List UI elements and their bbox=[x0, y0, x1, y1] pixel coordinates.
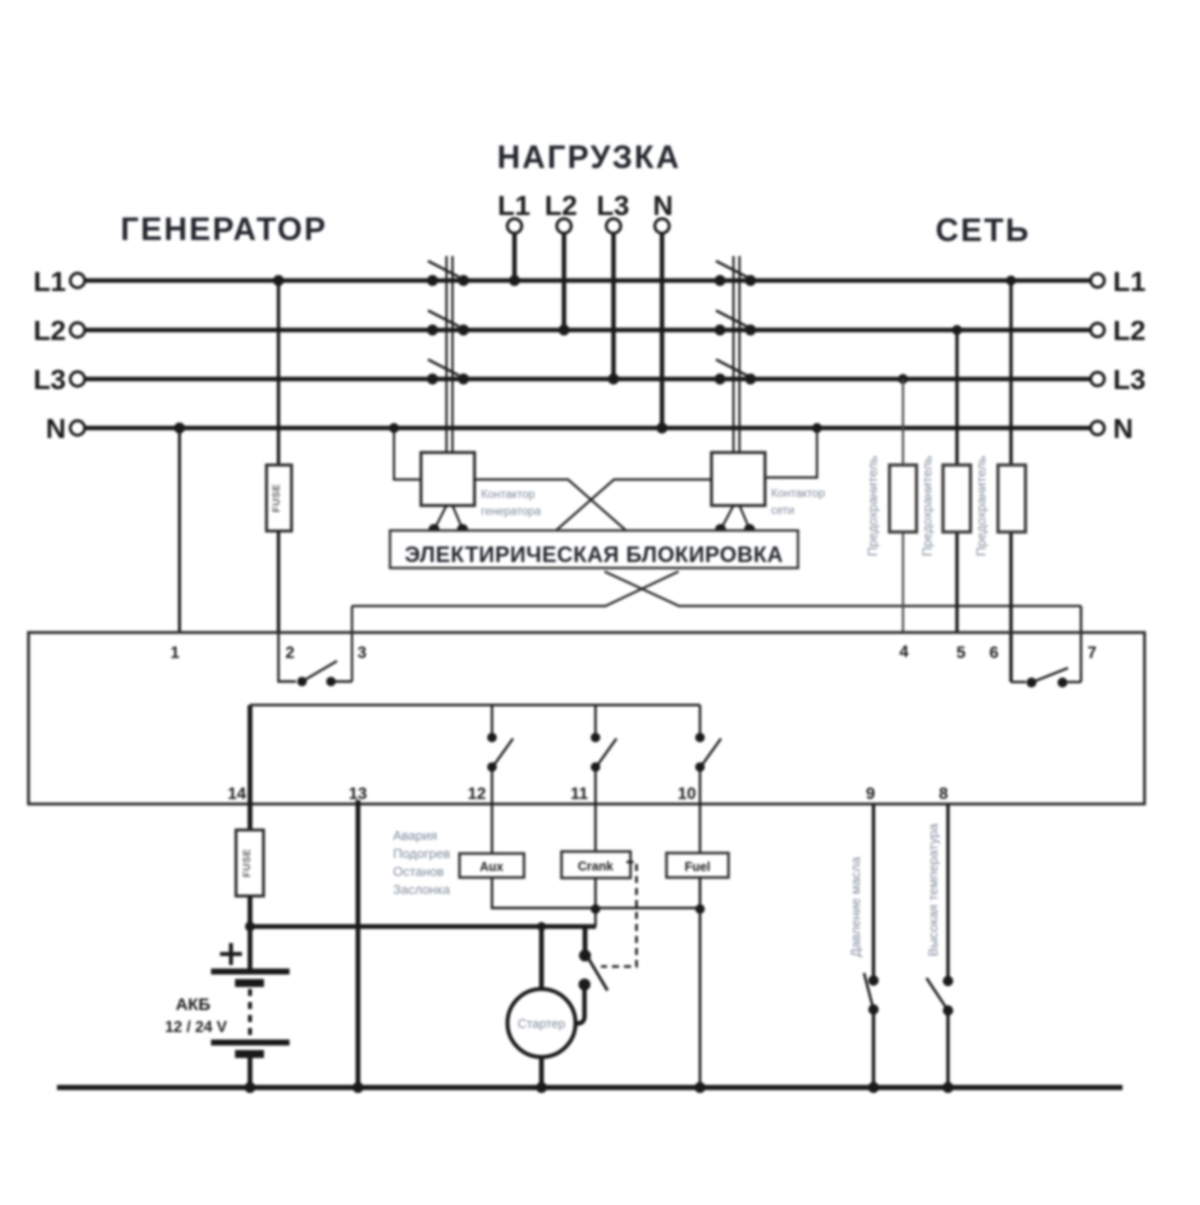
svg-text:7: 7 bbox=[1087, 644, 1096, 662]
wire pin 9 bbox=[872, 804, 875, 980]
svg-text:9: 9 bbox=[866, 785, 875, 803]
starter M1 feed bbox=[537, 922, 546, 931]
wire Fuel bottom to ground bus bbox=[699, 878, 702, 1088]
oil pressure switch S7 bbox=[868, 975, 878, 985]
switch S5 (pin 10) bbox=[699, 705, 701, 737]
svg-text:Стартер: Стартер bbox=[518, 1017, 566, 1031]
svg-text:12 / 24 V: 12 / 24 V bbox=[165, 1019, 228, 1036]
svg-text:Fuel: Fuel bbox=[685, 860, 711, 874]
relay box Crank bbox=[562, 852, 631, 879]
node: N tap to pin 1 bbox=[174, 423, 185, 434]
mains contactor link rail bbox=[732, 256, 734, 453]
generator coil leads to interlock bbox=[435, 506, 447, 530]
load terminal circles bbox=[507, 219, 521, 233]
svg-text:FUSE: FUSE bbox=[242, 849, 253, 878]
svg-text:Контактор: Контактор bbox=[481, 489, 535, 501]
bus L3 bbox=[85, 377, 1092, 381]
high temperature switch S8 bbox=[943, 976, 953, 986]
mains coil leads to interlock bbox=[721, 506, 734, 530]
svg-text:Подогрев: Подогрев bbox=[393, 846, 450, 861]
wire L2 to pin 5 bbox=[955, 330, 958, 633]
mains contactor blades bbox=[716, 261, 747, 277]
svg-text:14: 14 bbox=[228, 785, 247, 803]
switch S3 (pin 12) bbox=[491, 705, 493, 737]
wire Crank bottom bbox=[594, 878, 596, 927]
svg-text:Контактор: Контактор bbox=[771, 488, 825, 500]
svg-text:8: 8 bbox=[939, 785, 948, 803]
battery plus sign bbox=[220, 952, 242, 956]
node: generator L1 tap bbox=[273, 275, 284, 286]
interlock box ЭЛЕКТИРИЧЕСКАЯ БЛОКИРОВКА bbox=[390, 531, 798, 569]
svg-text:10: 10 bbox=[678, 785, 696, 803]
svg-text:Aux: Aux bbox=[480, 860, 504, 874]
bus N bbox=[85, 426, 1092, 430]
svg-text:1: 1 bbox=[170, 644, 179, 662]
controller box U1 bbox=[29, 633, 1145, 805]
wire fuse F1 to pin 2 bbox=[277, 531, 280, 633]
svg-text:Высокая температура: Высокая температура bbox=[926, 823, 941, 957]
wire N to pin 1 bbox=[178, 428, 181, 633]
switch S1 between pins 2-3 bbox=[279, 633, 297, 682]
svg-text:11: 11 bbox=[571, 785, 588, 803]
svg-text:Предохранитель: Предохранитель bbox=[974, 456, 989, 557]
svg-text:L2: L2 bbox=[1113, 315, 1146, 346]
node: N tap mains coil bbox=[812, 423, 822, 433]
svg-text:Предохранитель: Предохранитель bbox=[865, 456, 880, 557]
fuse F4 (mains L1) bbox=[998, 465, 1026, 532]
starter M1 bbox=[508, 989, 576, 1057]
svg-text:L1: L1 bbox=[498, 190, 531, 221]
bus L2 bbox=[85, 328, 1092, 332]
svg-text:N: N bbox=[46, 413, 66, 444]
wire pin 8 bbox=[946, 804, 949, 981]
svg-text:3: 3 bbox=[357, 644, 366, 662]
starter to ground bus bbox=[539, 1058, 544, 1088]
wire pin 13 to ground bus bbox=[356, 800, 361, 1088]
svg-text:N: N bbox=[653, 190, 673, 221]
battery B1 bbox=[248, 927, 253, 970]
node: L1 tap fuse bbox=[1006, 276, 1016, 286]
svg-text:Предохранитель: Предохранитель bbox=[920, 456, 935, 557]
interlock cross wire from generator coil bbox=[475, 480, 626, 531]
svg-text:НАГРУЗКА: НАГРУЗКА bbox=[497, 139, 681, 175]
svg-text:L3: L3 bbox=[597, 190, 630, 221]
svg-text:L3: L3 bbox=[33, 364, 66, 395]
node: L3 tap fuse bbox=[898, 374, 908, 384]
switch S4 (pin 11) bbox=[594, 705, 596, 737]
dashed link Crank to starter switch bbox=[601, 862, 637, 967]
svg-text:сети: сети bbox=[771, 505, 794, 517]
mains contactor K2 contacts bbox=[715, 275, 757, 385]
generator contactor coil box bbox=[421, 453, 475, 506]
fuse F3 (mains L2) bbox=[943, 465, 971, 532]
generator contactor link rail bbox=[445, 256, 447, 453]
lower cross wire to pin 7 bbox=[605, 572, 1082, 607]
bus L1 bbox=[85, 278, 1092, 282]
svg-text:генератора: генератора bbox=[481, 506, 542, 518]
node battery plus bbox=[245, 922, 255, 932]
wire pin 14 to battery fuse bbox=[248, 705, 253, 830]
inner feed wire bbox=[250, 704, 700, 706]
svg-text:FUSE: FUSE bbox=[272, 484, 283, 513]
fuse F1 (generator) bbox=[267, 465, 292, 531]
left terminal circles bbox=[70, 273, 84, 287]
load tap junction dots bbox=[509, 275, 520, 286]
fuse F5 (battery) bbox=[236, 830, 264, 896]
svg-text:Заслонка: Заслонка bbox=[393, 882, 451, 897]
svg-text:5: 5 bbox=[956, 644, 965, 662]
lower cross wire to pin 3 bbox=[352, 572, 679, 607]
svg-text:СЕТЬ: СЕТЬ bbox=[936, 212, 1031, 248]
svg-text:Crank: Crank bbox=[578, 860, 613, 874]
relay box Fuel bbox=[667, 853, 729, 878]
wire N to mains coil bbox=[765, 428, 817, 478]
wire L1 tap down to fuse F1 bbox=[277, 281, 280, 466]
wire fuse to battery plus node bbox=[248, 896, 253, 927]
svg-text:Останов: Останов bbox=[393, 864, 444, 879]
svg-text:ЭЛЕКТИРИЧЕСКАЯ БЛОКИРОВКА: ЭЛЕКТИРИЧЕСКАЯ БЛОКИРОВКА bbox=[405, 542, 784, 567]
svg-text:N: N bbox=[1113, 413, 1133, 444]
svg-text:АКБ: АКБ bbox=[176, 995, 211, 1014]
node: L2 tap fuse bbox=[952, 325, 962, 335]
wire N to generator coil bbox=[394, 428, 421, 480]
right terminal circles bbox=[1091, 274, 1105, 288]
interlock cross wire from mains coil bbox=[557, 480, 712, 531]
svg-text:Давление масла: Давление масла bbox=[848, 856, 863, 957]
fuse F2 (mains L3) bbox=[890, 465, 917, 532]
svg-text:ГЕНЕРАТОР: ГЕНЕРАТОР bbox=[121, 211, 328, 247]
svg-text:12: 12 bbox=[468, 785, 486, 803]
starter solenoid switch S6 bbox=[583, 927, 588, 954]
svg-text:2: 2 bbox=[285, 644, 294, 662]
wire pin 3 vertical bbox=[351, 606, 353, 682]
generator contactor K1 contacts bbox=[427, 275, 469, 385]
switch S2 between pins 6-7 bbox=[1011, 681, 1026, 683]
svg-text:L1: L1 bbox=[33, 266, 66, 297]
svg-text:Авария: Авария bbox=[393, 828, 437, 843]
wire Aux bottom connector bbox=[492, 878, 700, 909]
wire pin 7 vertical bbox=[1080, 606, 1082, 682]
wire L3 to pin 4 bbox=[902, 379, 904, 633]
svg-text:L3: L3 bbox=[1113, 364, 1146, 395]
wire L1 to pin 6 bbox=[1009, 281, 1012, 683]
svg-text:6: 6 bbox=[989, 644, 998, 662]
generator contactor blades bbox=[428, 261, 459, 277]
load drop wires bbox=[512, 233, 517, 281]
ground bus bbox=[57, 1085, 1123, 1090]
battery positive feed wire bbox=[250, 924, 596, 929]
svg-text:L2: L2 bbox=[545, 190, 578, 221]
svg-text:L1: L1 bbox=[1113, 266, 1146, 297]
node: N tap generator coil bbox=[389, 423, 399, 433]
svg-text:4: 4 bbox=[899, 643, 909, 661]
svg-text:L2: L2 bbox=[33, 315, 66, 346]
mains contactor coil box bbox=[712, 453, 766, 506]
relay box Aux bbox=[460, 854, 525, 878]
